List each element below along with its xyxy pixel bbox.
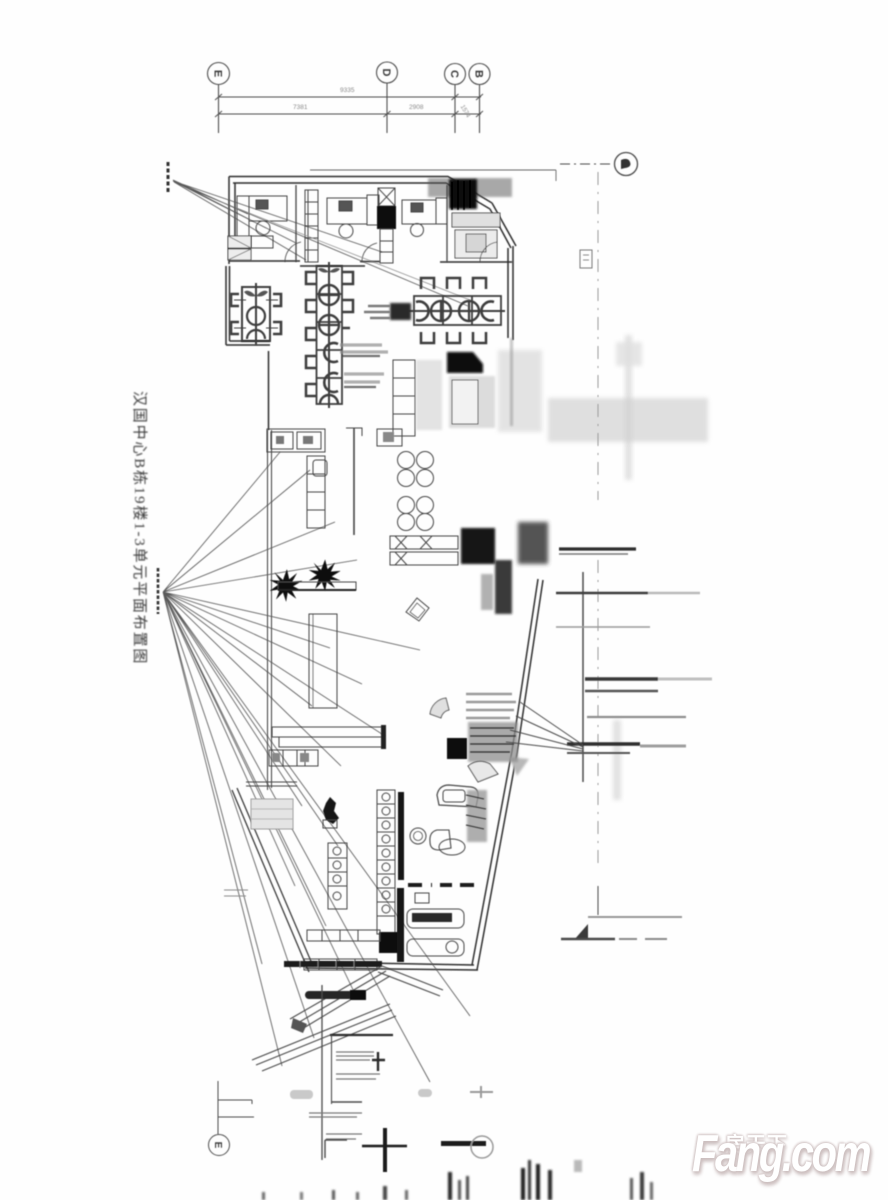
ws top leaf <box>318 268 340 273</box>
partition cabinet 1 hatch <box>305 190 318 262</box>
cross big vertical <box>383 1128 387 1172</box>
storage strip tall <box>307 456 325 528</box>
lower-left shelf lines <box>246 782 297 786</box>
pantry strip rows <box>393 378 415 414</box>
dark smear column below blob <box>495 560 512 614</box>
conference dark blob <box>461 528 495 564</box>
cross big horizontal <box>362 1145 407 1148</box>
svg-text:B: B <box>473 70 485 78</box>
bar dark rail upper <box>398 792 404 880</box>
ws2 top chair 2 <box>447 278 460 289</box>
smear band right mid <box>498 350 542 432</box>
extension line D <box>386 83 388 133</box>
fang.com watermark <box>688 1116 888 1200</box>
bar counter circles <box>382 793 390 801</box>
ws right chair 2 <box>342 300 353 312</box>
svg-text:D: D <box>380 69 392 77</box>
ws Cchair 2 <box>324 373 338 392</box>
ws2 bottom chair 2 <box>447 332 460 343</box>
door arc office1 <box>285 242 301 262</box>
office1 desk <box>249 196 287 221</box>
ws2 center line <box>409 310 505 312</box>
wall office1-2 <box>295 185 297 262</box>
sofa small room 2 <box>228 249 251 260</box>
ws2 desk dark blob <box>390 303 411 320</box>
centerline leader horizontal <box>560 163 614 165</box>
elevator cab 1 mark <box>276 436 284 444</box>
meeting chair L1 <box>231 294 239 306</box>
office2 pc <box>339 201 352 211</box>
dim bar 5 <box>567 742 640 745</box>
right furniture lines <box>470 728 516 752</box>
svg-text:9335: 9335 <box>340 87 355 94</box>
grid bubble bottom-right <box>471 1136 493 1158</box>
elevator cab 1 <box>271 432 293 449</box>
tiny text smudge left <box>290 1090 313 1099</box>
reception counter inner <box>312 614 314 708</box>
ws2 bottom chair 1 <box>421 332 434 343</box>
office3 chair <box>411 224 424 237</box>
storage item <box>313 460 327 476</box>
grid line horizontal 1 <box>218 1100 252 1104</box>
office1 side table <box>251 236 273 248</box>
partition cabinet 1 <box>305 190 318 262</box>
meeting chair arm L1 <box>234 299 246 301</box>
lift box right mark <box>383 432 394 442</box>
wall stub top <box>346 428 362 436</box>
canopy corner wedge <box>291 1018 307 1033</box>
centerline bubble glyph <box>621 159 630 169</box>
dim bar 5 fade <box>640 745 686 748</box>
dim bar 6 <box>567 752 630 754</box>
lower h line <box>588 916 682 918</box>
svg-text:C: C <box>448 70 460 78</box>
desk lr1 bar <box>412 913 452 922</box>
meeting table <box>242 287 270 341</box>
black square mid <box>447 738 467 759</box>
stair stripes r4 <box>326 1134 362 1139</box>
meeting chair R1 <box>273 294 281 306</box>
clover group 1 <box>398 452 434 487</box>
grid bubble bottom-left <box>209 1135 230 1156</box>
svg-text:E: E <box>212 70 224 77</box>
cabinet strip A <box>328 843 347 909</box>
office3 pc <box>411 203 423 212</box>
extension line E <box>218 85 220 134</box>
lift box right <box>377 429 402 446</box>
dimension line segments <box>219 113 482 115</box>
desk lr1 <box>407 909 464 928</box>
dim cross h1 <box>556 592 648 594</box>
dashed wall lower <box>408 883 482 887</box>
corridor streak <box>236 208 470 300</box>
office1 desk return <box>237 196 249 238</box>
round chair ring <box>414 832 423 841</box>
sofa small room <box>228 236 251 248</box>
ws left chair 4 <box>306 356 317 368</box>
meeting room bottom wall <box>226 341 270 345</box>
sofa small room 2 mark <box>228 249 251 260</box>
meeting chair arm R2 <box>266 327 278 329</box>
grid bubble E <box>208 63 230 85</box>
wall left upper inner <box>234 183 236 258</box>
bottom wall dark bar <box>284 961 382 967</box>
light bar group right <box>466 694 516 718</box>
sofa cushion <box>443 790 465 802</box>
small ref text <box>583 255 589 260</box>
diamond table <box>406 598 429 621</box>
elevator cab 2 <box>297 432 321 449</box>
ws2 Cchair right <box>481 302 494 321</box>
centerline bubble <box>615 153 638 176</box>
dim cross h1 fade <box>648 592 700 594</box>
small table lr <box>415 893 429 903</box>
partition column X box <box>378 188 395 206</box>
manager sofa back <box>452 213 500 227</box>
partition X <box>378 188 395 206</box>
ws2 Cchair left <box>416 302 429 321</box>
canopy diagonals left <box>290 966 390 1029</box>
dim vertical long <box>582 572 584 782</box>
office3 desk <box>402 200 436 224</box>
ws right chair 3 <box>342 327 350 330</box>
wall mid vertical left <box>268 351 270 430</box>
svg-text:7381: 7381 <box>293 104 308 111</box>
cabinet strip A rows <box>328 858 347 886</box>
leader diag 1 <box>506 702 583 751</box>
smear vertical faint <box>625 335 632 480</box>
entrance mat dark <box>309 991 361 999</box>
dim cross h2 <box>556 626 650 628</box>
meeting table divider <box>255 283 257 345</box>
bottom wall bar boxes <box>300 961 354 968</box>
diamond inner <box>410 603 425 618</box>
canopy diagonals right <box>378 966 443 996</box>
tick marks <box>215 94 483 117</box>
dimension line total <box>219 96 482 98</box>
ws row lines <box>317 294 343 378</box>
leader fan mid <box>163 452 470 1082</box>
long desk top <box>272 727 384 737</box>
wall right lower diagonal inner <box>472 579 538 965</box>
layout frame bottom <box>332 1101 363 1103</box>
smear vertical faint 2 <box>613 720 621 800</box>
extension line B <box>479 85 481 134</box>
layout frame left <box>331 1035 333 1104</box>
round chair small <box>410 828 426 844</box>
ws2 outline <box>414 296 501 325</box>
svg-text:E: E <box>212 1142 223 1149</box>
dim bar 3 <box>585 690 658 693</box>
ws left chair 2 <box>306 300 317 312</box>
wall right upper <box>490 203 516 340</box>
cabinet outline below wedge <box>452 380 478 424</box>
clover group 2 <box>398 497 434 531</box>
grid bubble D <box>377 62 398 83</box>
svg-text:1574: 1574 <box>459 104 471 119</box>
lower small vertical <box>597 886 599 915</box>
partition black cabinet <box>377 206 396 229</box>
entrance mat dark block <box>350 990 366 1000</box>
leader text marks top <box>167 162 170 192</box>
title 汉国中心B栋19楼1-3单元平面布置图 <box>128 391 149 665</box>
counter boxes below desk <box>269 750 318 766</box>
small ref box <box>580 250 592 268</box>
storage strip rows <box>307 474 325 510</box>
sofa right lines <box>466 795 486 829</box>
plant dark lower <box>323 797 339 824</box>
dim bar 4 <box>587 716 686 718</box>
partition strip lower <box>380 229 393 263</box>
counter h2 <box>304 959 377 970</box>
smear blob dark <box>518 522 548 564</box>
grid line vertical bottom-left <box>217 1081 219 1134</box>
lower h bar <box>561 938 615 941</box>
entrance mat cap <box>305 991 313 999</box>
counter h1 <box>307 930 380 941</box>
sofa small room mark <box>228 236 251 248</box>
office2 chair <box>339 224 353 238</box>
meeting table center ring <box>247 307 265 325</box>
gray column beside smear <box>481 574 493 610</box>
meeting room left wall <box>226 266 230 345</box>
meeting chair R2 <box>273 322 281 334</box>
plant 1 <box>270 569 303 602</box>
office1 chair <box>256 221 270 235</box>
ws Cchair 1 <box>324 343 338 362</box>
manager room bookcase smear <box>449 179 477 209</box>
door arc office3 <box>480 242 497 262</box>
wall bottom inner <box>309 962 474 965</box>
smear soft box <box>616 342 642 366</box>
ws streaks <box>340 345 388 382</box>
stair stripes r3 <box>309 1113 362 1117</box>
office3 cabinet <box>436 198 447 224</box>
manager sofa seat <box>455 230 497 258</box>
manager table <box>466 234 486 252</box>
ws2 Xchair 1 <box>431 301 451 321</box>
ws left chair 1 <box>306 272 317 284</box>
lower dark wedge <box>574 924 588 940</box>
wall left lower diagonal outer <box>232 790 309 972</box>
plant shelf shading <box>278 589 356 591</box>
long desk right bar <box>381 725 386 749</box>
centerline dash-dot <box>597 172 599 868</box>
barcode cluster 1 <box>448 1172 452 1200</box>
cross small <box>372 1052 385 1071</box>
canopy band lower <box>252 1004 396 1071</box>
black wedge blob <box>447 352 483 373</box>
meeting table leaf glyph <box>244 291 268 297</box>
corridor wall horizontal <box>229 261 512 266</box>
cabinet gray below wedge <box>449 376 495 428</box>
extension line C <box>454 85 456 134</box>
ws2 blob streaks <box>364 306 390 318</box>
armchair below <box>430 830 451 850</box>
wall right faint continuation <box>510 338 513 426</box>
ws Xchair 2 <box>319 315 339 335</box>
gray speck <box>574 1160 582 1172</box>
ws2 Xchair 2 <box>459 301 479 321</box>
ws Xchair 1 <box>319 285 339 305</box>
grid line horizontal 2 <box>218 1116 254 1118</box>
reception counter vertical <box>309 614 337 708</box>
svg-text:2908: 2908 <box>409 104 424 111</box>
wall bottom outer <box>305 968 478 970</box>
lower dashes <box>619 938 667 940</box>
wall top inner <box>233 183 490 209</box>
wall top outer <box>229 177 492 204</box>
ws2 bottom chair 3 <box>473 332 486 343</box>
meeting chair L2 <box>231 322 239 334</box>
elevator cab 2 mark <box>303 436 313 444</box>
armchair right <box>468 761 498 782</box>
sofa top right <box>437 785 478 807</box>
ws2 dividers <box>443 296 472 325</box>
ws right chair 1 <box>342 272 353 284</box>
wall right lower diagonal outer <box>477 580 543 970</box>
ws column center line <box>328 262 330 408</box>
dim bar 1 <box>559 547 636 550</box>
leader text marks mid <box>157 568 160 614</box>
ws bottom arc <box>320 395 338 404</box>
dim bar 1b <box>559 553 628 555</box>
layout frame top <box>330 1034 393 1036</box>
ws2 top chair 1 <box>421 278 434 289</box>
desk lr2 mark <box>446 941 458 953</box>
lower-left shelf 2 <box>224 890 248 896</box>
counter boxes marks <box>272 753 280 762</box>
plant pot lower <box>323 820 337 828</box>
meeting chair arm L2 <box>234 327 246 329</box>
bar counter long <box>377 790 395 934</box>
wall left upper outer <box>228 177 230 265</box>
manager room top smear band <box>428 178 512 197</box>
grid thick line to bubble <box>441 1141 486 1146</box>
cabinet strip A circles <box>333 847 341 855</box>
black square lower <box>379 932 397 953</box>
pantry strip <box>393 360 415 436</box>
bar counter rows <box>377 804 395 916</box>
door arc office2 <box>362 243 377 262</box>
tiny text smudge mid <box>418 1089 432 1097</box>
office2 cabinet <box>367 195 379 225</box>
elevator lobby box <box>267 429 325 452</box>
wall office3-mgr <box>446 185 448 262</box>
wall top extension line <box>310 170 556 181</box>
frame corner G <box>325 1140 347 1158</box>
grid bubble B <box>469 64 490 85</box>
cross right light <box>470 1086 493 1098</box>
coffee oval <box>439 839 465 855</box>
office1 pc <box>256 200 268 209</box>
ws left chair 5 <box>306 384 317 396</box>
long desk bottom <box>279 737 384 747</box>
ws2 top chair 3 <box>473 278 486 289</box>
manager room bookcase streaks <box>452 180 470 210</box>
sofa right heavy <box>467 790 487 842</box>
wall stub vertical mid <box>353 428 355 535</box>
barcode cluster 2 <box>521 1168 525 1200</box>
wall left lower diagonal inner <box>237 788 313 966</box>
barcode cluster 3 <box>630 1178 633 1200</box>
lower-left light boxes <box>251 799 293 829</box>
leader fan top <box>173 180 468 306</box>
bar dark rail lower <box>397 888 404 962</box>
plant 2 <box>309 559 341 591</box>
plumb line vertical <box>321 985 323 1160</box>
meeting table bottom ring <box>247 330 265 339</box>
ws column outline <box>317 266 343 404</box>
pantry gray streak <box>416 360 442 430</box>
conference X table <box>390 536 458 549</box>
smear band lighter right <box>548 398 708 442</box>
right furniture smear <box>468 722 518 762</box>
desk lr2 <box>407 939 464 956</box>
wall left long vertical <box>268 430 272 790</box>
dim bar 2 <box>585 677 658 680</box>
dim bar 2 fade <box>658 678 712 681</box>
ws left chair 3 <box>306 328 317 340</box>
fan chair mid <box>430 698 449 718</box>
plant shelf <box>278 582 356 590</box>
bottom ticks <box>332 1190 335 1200</box>
conference X table row2 <box>390 552 458 565</box>
grid bubble C <box>445 64 466 85</box>
stair stripes r2 <box>336 1074 380 1079</box>
ws streak dark <box>342 356 380 387</box>
meeting chair arm R1 <box>266 299 278 301</box>
office2 desk <box>327 198 367 224</box>
stair stripes r1 <box>336 1052 374 1060</box>
gray triangle corner <box>509 757 529 776</box>
